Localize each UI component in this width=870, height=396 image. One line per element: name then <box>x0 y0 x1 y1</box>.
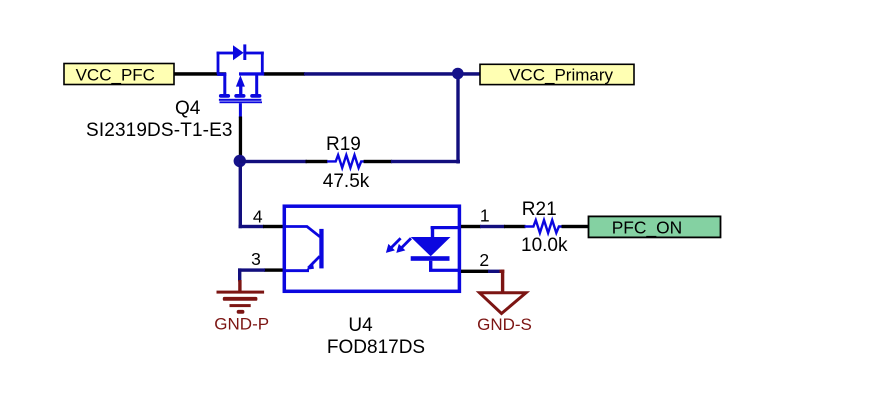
emitter arrowhead <box>307 261 314 270</box>
phototransistor base bar <box>319 229 323 269</box>
port PFC_ON <box>589 216 721 237</box>
anode top horizontal <box>431 226 458 229</box>
anode vertical <box>431 227 434 238</box>
svg-text:47.5k: 47.5k <box>323 171 370 192</box>
svg-text:R21: R21 <box>522 199 557 220</box>
wire pin4 horizontal navy <box>239 225 264 228</box>
wire pin3 horizontal black <box>264 268 284 271</box>
ground GND-S stem (maroon) <box>501 270 504 293</box>
svg-text:2: 2 <box>479 250 489 270</box>
emitter horizontal <box>286 269 309 272</box>
svg-text:GND-S: GND-S <box>477 315 532 334</box>
LED light arrow 1 <box>386 238 401 253</box>
gate line upper <box>219 99 262 101</box>
wire VCC_PFC to Q4 source (black) <box>174 72 226 76</box>
drain contact bar <box>250 94 261 98</box>
wire pin4 horizontal black <box>263 225 284 228</box>
wire pin3 horizontal navy <box>238 268 265 271</box>
wire R21 to PFC_ON (black) <box>562 225 590 228</box>
drain drop vertical <box>255 74 258 95</box>
ground GND-P <box>217 291 265 314</box>
svg-text:PFC_ON: PFC_ON <box>612 218 683 238</box>
wire pin2 maroon corner <box>500 270 505 273</box>
wire pin1 black from box <box>461 225 481 228</box>
body diode loop top right <box>246 52 264 55</box>
wire node down to pin4 corner (navy) <box>239 165 242 228</box>
svg-text:SI2319DS-T1-E3: SI2319DS-T1-E3 <box>86 120 233 141</box>
body diode loop left vertical <box>217 52 220 75</box>
gate lead <box>239 103 242 118</box>
wire R19 right black segment <box>364 160 393 163</box>
optocoupler U4 box <box>284 206 459 291</box>
svg-text:1: 1 <box>480 206 490 226</box>
ground GND-P stem (maroon) <box>238 280 241 292</box>
resistor R21 <box>525 220 562 233</box>
emitter line <box>308 256 320 268</box>
svg-text:Q4: Q4 <box>175 98 201 119</box>
body diode anode triangle <box>233 45 244 60</box>
wire R19 left black segment <box>306 160 328 163</box>
wire Q4 drain to node (black segment) <box>264 72 306 76</box>
wire R19 line left (navy) <box>239 160 307 163</box>
LED light arrow 2 <box>396 238 411 253</box>
LED cathode bar <box>411 256 450 261</box>
cathode bottom horizontal <box>429 269 458 272</box>
wire pin3 corner down navy <box>238 268 241 281</box>
U4 phototransistor <box>286 227 320 269</box>
body contact bar <box>234 94 245 98</box>
U4 LED <box>411 226 458 272</box>
source step jog <box>217 73 226 76</box>
svg-text:VCC_PFC: VCC_PFC <box>76 66 155 85</box>
collector line <box>286 227 320 237</box>
body arrow triangle <box>236 75 245 86</box>
wire pin1 navy <box>480 225 505 228</box>
wire vertical node to R19 line (navy) <box>456 73 459 164</box>
body diode loop top left <box>217 52 235 55</box>
node junction dot at VCC_Primary <box>452 68 464 80</box>
svg-text:FOD817DS: FOD817DS <box>327 337 425 358</box>
transistor Q4 <box>217 44 265 118</box>
body diode cathode bar <box>243 44 246 60</box>
svg-text:10.0k: 10.0k <box>521 235 568 256</box>
wire R19 right navy to corner <box>391 160 460 163</box>
svg-text:R19: R19 <box>326 134 361 155</box>
LED triangle <box>411 237 451 256</box>
drain-body horizontal at wire level <box>239 72 264 75</box>
node junction dot at gate/R19 <box>234 155 246 167</box>
body diode loop right vertical <box>261 52 264 75</box>
wire pin2 black from box <box>461 270 490 273</box>
resistor R19 <box>327 155 364 168</box>
svg-text:3: 3 <box>251 249 261 269</box>
source drop vertical <box>223 73 226 95</box>
source contact bar <box>219 94 230 98</box>
ground GND-S triangle <box>480 293 527 314</box>
wire gate lead down (black) <box>239 117 242 157</box>
svg-text:4: 4 <box>253 207 263 227</box>
svg-text:U4: U4 <box>348 315 373 336</box>
wire pin2 navy <box>488 270 501 273</box>
wire pin1 black to R21 <box>504 225 526 228</box>
port VCC_Primary <box>480 64 634 84</box>
wire node segment to VCC_Primary (navy) <box>304 72 480 76</box>
port VCC_PFC <box>64 64 174 85</box>
gate line lower <box>220 101 263 103</box>
svg-text:GND-P: GND-P <box>214 314 269 333</box>
svg-text:VCC_Primary: VCC_Primary <box>509 66 613 85</box>
body arrow stem <box>239 86 242 95</box>
cathode vertical <box>429 261 432 272</box>
